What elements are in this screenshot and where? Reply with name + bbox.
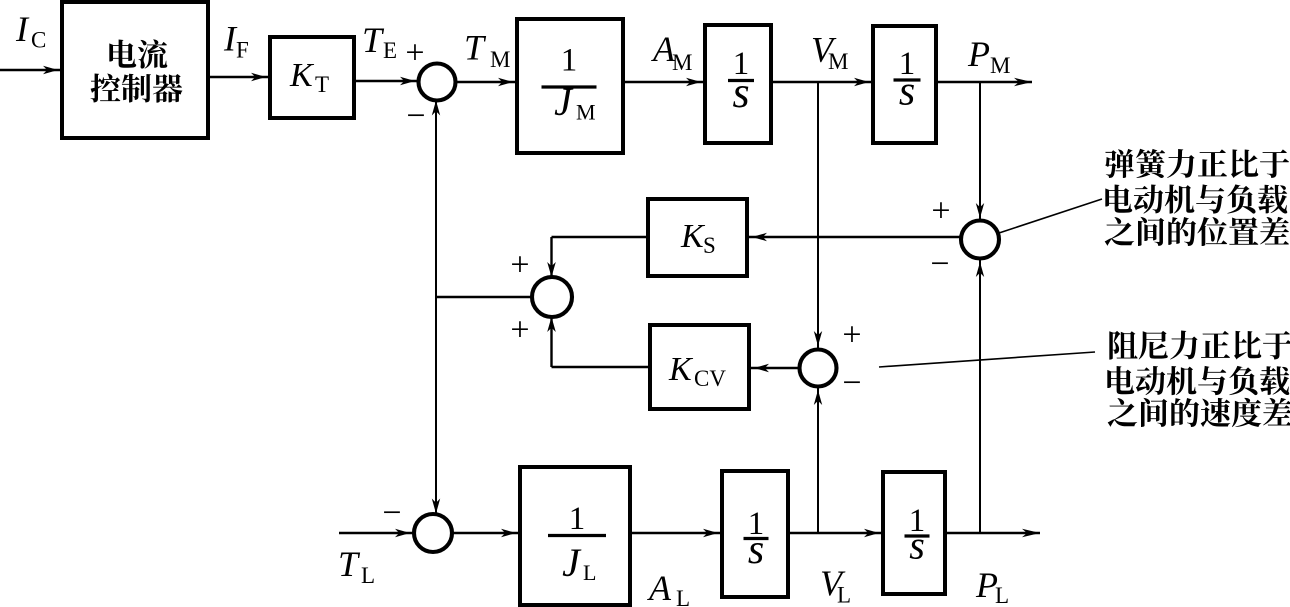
svg-text:T: T <box>464 28 487 68</box>
wire TL input to sum2 <box>339 529 413 537</box>
fraction 1/J_L <box>548 501 606 585</box>
block KS spring constant <box>648 199 747 276</box>
svg-text:−: − <box>382 495 401 532</box>
svg-text:+: + <box>510 312 529 349</box>
svg-text:M: M <box>828 49 848 74</box>
label I_F <box>223 19 249 63</box>
svg-text:T: T <box>338 544 361 584</box>
svg-text:L: L <box>837 583 851 607</box>
annotation line5 电动机与负载 <box>1107 366 1289 395</box>
svg-text:1: 1 <box>569 501 586 537</box>
svg-text:s: s <box>732 68 749 117</box>
svg-text:J: J <box>562 540 582 585</box>
summing junction damping (velocity difference) <box>800 350 837 387</box>
wire integrator4 output PL <box>945 529 1040 537</box>
plus sign lower at mid sum <box>510 312 529 349</box>
fraction 1/J_M <box>542 43 597 125</box>
svg-text:K: K <box>668 351 694 388</box>
plus sign upper at mid sum <box>510 247 529 284</box>
block integrator 1/s (load position) <box>883 472 945 594</box>
gain K_CV <box>668 351 726 391</box>
svg-text:s: s <box>909 523 925 568</box>
fraction 1/s bottom1 <box>744 506 769 573</box>
svg-text:s: s <box>899 69 915 115</box>
wire integrator2 output PM <box>936 78 1032 86</box>
block 1/JL <box>520 467 630 605</box>
summing junction sum2 (load torque) <box>414 514 452 552</box>
wire KCV to sum mid <box>547 317 650 367</box>
svg-text:C: C <box>31 28 46 53</box>
annotation line1 弹簧力正比于 <box>1105 149 1289 178</box>
wire integrator3 to integrator4 <box>788 529 882 537</box>
svg-text:I: I <box>15 9 30 49</box>
svg-text:−: − <box>842 365 861 402</box>
text 电流 <box>109 39 167 68</box>
label P_M <box>967 34 1010 78</box>
wire sum2 to 1/JL <box>452 529 519 537</box>
svg-text:+: + <box>931 193 950 230</box>
wire KT to sum1 <box>354 77 418 85</box>
label A_M <box>651 29 692 75</box>
svg-text:+: + <box>405 35 424 72</box>
wire input Ic into current-controller <box>0 66 61 74</box>
svg-text:T: T <box>315 72 329 97</box>
svg-text:M: M <box>576 100 596 125</box>
wire integrator1 to integrator2 <box>771 78 872 86</box>
feedback vertical line to sum1 and sum2 <box>432 101 440 514</box>
annotation line3 之间的位置差 <box>1105 217 1289 246</box>
wire VL up to damping sum <box>814 387 822 533</box>
svg-text:J: J <box>554 79 574 124</box>
block integrator 1/s (load velocity) <box>722 471 788 597</box>
svg-text:+: + <box>510 247 529 284</box>
plus sign at damping sum <box>842 317 861 354</box>
label I_C <box>15 9 46 53</box>
block integrator 1/s (motor position) <box>873 26 936 143</box>
svg-text:M: M <box>490 47 510 72</box>
annotation line4 阻尼力正比于 <box>1109 331 1290 360</box>
svg-text:F: F <box>236 38 249 63</box>
wire VM down to damping sum <box>814 82 822 349</box>
minus sign at damping sum <box>842 365 861 402</box>
label T_L <box>338 544 375 588</box>
summing junction mid (total force) <box>532 277 572 317</box>
block KT <box>270 37 354 118</box>
svg-text:S: S <box>703 233 716 258</box>
gain K_T <box>289 57 329 97</box>
wire PL up to spring sum <box>976 259 984 533</box>
svg-text:1: 1 <box>561 43 578 79</box>
label P_L <box>975 565 1009 607</box>
annotation line2 电动机与负载 <box>1105 184 1287 213</box>
leader line damping annotation <box>879 352 1095 367</box>
wire KS to sum mid <box>547 237 648 277</box>
svg-text:s: s <box>748 527 764 573</box>
plus sign at spring sum <box>931 193 950 230</box>
svg-text:P: P <box>967 34 990 74</box>
wire sum1 to 1/JM <box>456 78 517 86</box>
label A_L <box>647 568 690 607</box>
svg-text:−: − <box>406 98 425 135</box>
wire 1/JL to integrator3 <box>630 529 721 537</box>
wire mid sum output to feedback line <box>436 296 532 298</box>
text 控制器 <box>91 73 183 102</box>
fraction 1/s bottom2 <box>905 503 930 568</box>
block 1/JM <box>517 19 623 153</box>
label V_M <box>811 30 848 75</box>
plus sign at sum1 <box>405 35 424 72</box>
wire PM down to spring sum <box>976 82 984 221</box>
svg-text:A: A <box>647 568 672 607</box>
svg-text:L: L <box>583 560 596 585</box>
label T_M <box>464 28 510 73</box>
summing junction sum1 (motor torque) <box>419 64 456 101</box>
svg-text:M: M <box>672 50 692 75</box>
svg-text:K: K <box>289 57 315 94</box>
svg-text:L: L <box>361 563 375 588</box>
minus sign at sum1 <box>406 98 425 135</box>
fraction 1/s top1 <box>728 46 754 117</box>
wire damping sum to KCV <box>751 364 800 372</box>
svg-text:+: + <box>842 317 861 354</box>
label T_E <box>362 20 397 63</box>
minus sign at sum2 <box>382 495 401 532</box>
svg-text:L: L <box>676 586 690 607</box>
gain K_S <box>680 218 716 258</box>
annotation line6 之间的速度差 <box>1108 398 1290 427</box>
wire spring sum to KS <box>749 233 961 241</box>
summing junction spring (position difference) <box>961 221 999 259</box>
leader line spring annotation <box>999 199 1102 233</box>
svg-text:E: E <box>383 38 397 63</box>
svg-text:T: T <box>362 20 385 60</box>
minus sign at spring sum <box>930 246 949 283</box>
block integrator 1/s (motor velocity) <box>705 25 771 143</box>
svg-text:−: − <box>930 246 949 283</box>
svg-text:M: M <box>990 53 1010 78</box>
block current controller 电流控制器 <box>62 2 208 138</box>
svg-text:L: L <box>995 583 1009 607</box>
wire controller to KT <box>208 73 269 81</box>
wire 1/JM to integrator1 <box>623 78 704 86</box>
svg-text:CV: CV <box>694 366 726 391</box>
fraction 1/s top2 <box>894 46 921 115</box>
label V_L <box>820 563 851 607</box>
block KCV damping constant <box>650 325 749 409</box>
